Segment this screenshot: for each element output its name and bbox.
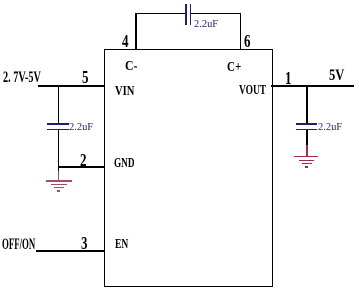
pin label GND [114,157,135,171]
pin number 2 [80,151,86,169]
wire: output node vertical to C3 [306,85,308,124]
net label 5V [329,68,344,84]
ground GND1 (input side) [58,171,60,181]
pin label C+ [227,61,241,75]
pin number 4 [122,32,128,50]
capacitor C2 2.2uF (input cap) [47,123,69,125]
capacitor C3 2.2uF (output cap) [296,123,317,125]
pin label VOUT [239,84,266,98]
wire: top loop horizontal left of C1 [135,13,185,15]
wire: top loop horizontal right of C1 [191,13,242,15]
wire: GND (pin 2) [58,166,104,168]
wire: VOUT output (pin 1) [271,85,354,87]
pin label C- [125,60,137,74]
IC U1 (charge-pump regulator) body [104,49,273,288]
pin number 5 [82,68,88,86]
pin label VIN [115,85,134,99]
net label OFF/ON [2,237,35,253]
net label 2.7V-5V [3,70,41,86]
wire: VIN input (pin 5) [38,85,105,87]
wire: EN (pin 3) [36,250,104,252]
pin number 3 [81,234,87,252]
wire: input node vertical to C2 [58,85,60,124]
wire: C2 bottom to GND node [58,130,60,171]
pin label EN [115,238,128,252]
ground GND2 (output side) [306,145,308,156]
value label C3 2.2uF [318,122,342,133]
capacitor C1 2.2uF (flying cap, top) [185,4,187,25]
wire: C3 bottom to GND node [306,130,308,145]
wire: pin 6 vertical [240,13,242,49]
pin number 1 [285,69,291,87]
value label C2 2.2uF [69,122,93,133]
wire: pin 4 vertical [135,13,137,49]
value label C1 2.2uF [194,19,218,30]
pin number 6 [244,32,250,50]
